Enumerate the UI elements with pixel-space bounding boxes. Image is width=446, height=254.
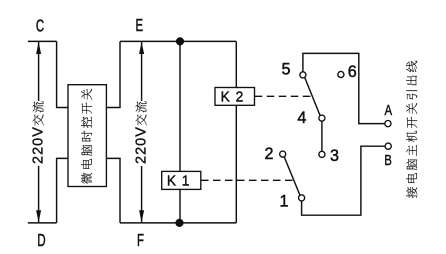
wire contact 1 to terminal B	[302, 146, 385, 215]
svg-text:A: A	[384, 102, 392, 119]
svg-text:220V: 220V	[31, 126, 47, 164]
K1 actuation dashed link	[201, 179, 294, 181]
wire contact 4 to contact 3	[321, 121, 323, 151]
wire D to timer box input	[57, 158, 68, 223]
svg-text:220V: 220V	[134, 126, 150, 164]
svg-text:F: F	[137, 232, 144, 251]
wire E line to K1 coil	[179, 41, 181, 171]
wire D bottom line	[28, 222, 57, 224]
junction node on F line	[175, 219, 183, 227]
wire F bottom line	[120, 222, 236, 224]
dimension arrow 220V AC input	[38, 42, 40, 222]
svg-text:K1: K1	[167, 173, 195, 190]
svg-text:K2: K2	[221, 89, 249, 106]
contact 3	[319, 151, 325, 157]
label lead wires to PC power switch	[406, 61, 417, 198]
relay coil K1	[162, 171, 201, 189]
relay coil K2	[215, 88, 255, 106]
junction node on E line	[176, 37, 184, 45]
svg-text:D: D	[37, 232, 45, 251]
wire timer output to F line	[106, 158, 120, 223]
wire K1 coil to F line	[179, 189, 181, 223]
contact 2	[280, 151, 286, 157]
wire C to timer box input	[57, 41, 68, 107]
microcomputer time-control switch box	[68, 85, 106, 187]
label 220V AC (input)	[31, 101, 47, 164]
dimension arrow 220V AC output	[141, 42, 143, 222]
terminal A	[385, 121, 391, 127]
wire timer output to E line	[106, 41, 120, 107]
wire E line to K2 coil	[235, 41, 237, 87]
label 220V AC (output)	[134, 101, 150, 164]
svg-text:6: 6	[348, 63, 357, 81]
svg-text:C: C	[36, 17, 45, 36]
svg-text:1: 1	[279, 193, 288, 211]
wire C top line	[28, 40, 57, 42]
svg-text:5: 5	[281, 60, 290, 78]
wire E top line	[120, 40, 236, 42]
terminal B	[385, 143, 391, 149]
svg-text:E: E	[136, 17, 144, 36]
switch blade 5-4	[305, 77, 320, 115]
svg-text:4: 4	[297, 109, 306, 127]
label timer box	[81, 89, 92, 184]
contact 6	[338, 71, 344, 77]
wire K2 coil to F line	[235, 105, 237, 223]
contact 4	[319, 115, 325, 121]
svg-text:3: 3	[330, 147, 339, 165]
svg-text:2: 2	[264, 145, 273, 163]
contact 1	[299, 195, 305, 201]
contact 5	[300, 72, 306, 78]
svg-text:B: B	[384, 152, 392, 169]
wire contact 5 to terminal A	[303, 53, 385, 123]
switch blade 2-1	[284, 157, 300, 195]
K2 actuation dashed link	[255, 95, 312, 97]
